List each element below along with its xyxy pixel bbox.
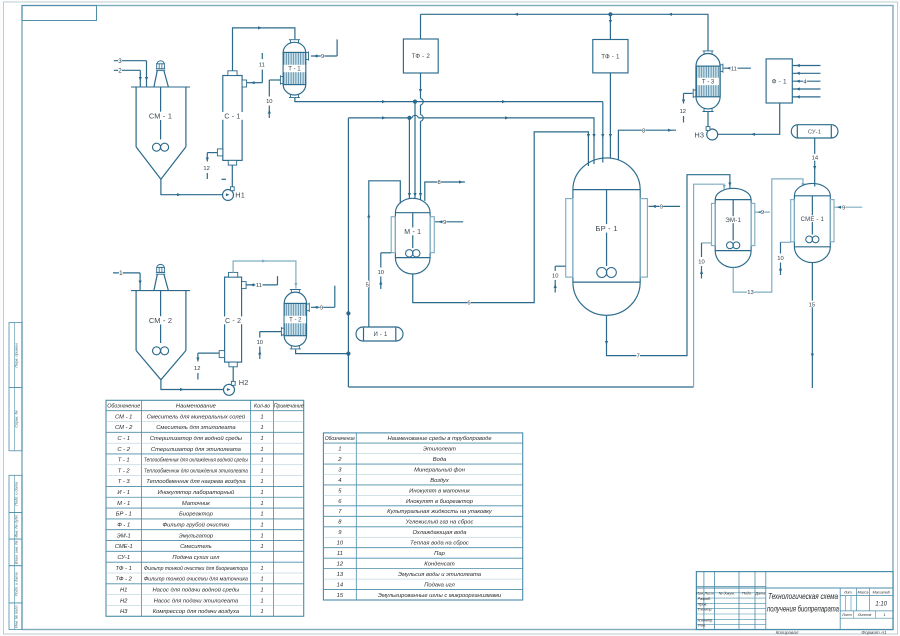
svg-text:ТФ - 1: ТФ - 1 <box>116 566 132 572</box>
svg-text:Теплообменник для охлаждения в: Теплообменник для охлаждения водной сред… <box>144 457 249 464</box>
ethyloleate branch line B to M-1 <box>408 118 410 202</box>
line A drop to BR-1 <box>602 102 604 137</box>
svg-text:М - 1: М - 1 <box>404 229 421 236</box>
pipe 10 warm water from BR-1 <box>552 266 566 292</box>
svg-text:9: 9 <box>321 54 324 60</box>
svg-text:СМ - 1: СМ - 1 <box>149 112 172 121</box>
pipe 1 into CM-2 <box>113 269 142 290</box>
svg-text:С - 2: С - 2 <box>225 318 241 325</box>
pipe CM-2 to pump H2 <box>161 380 224 391</box>
svg-text:С - 1: С - 1 <box>117 436 130 442</box>
ethyloleate line B horizontal <box>348 115 594 136</box>
svg-text:Теплообменник для нагрева возд: Теплообменник для нагрева воздуха <box>146 479 246 485</box>
pipe 10 warm water from EM-1 <box>698 243 711 279</box>
pump H1 <box>223 187 246 201</box>
pipe 9 cooling water into EM-1 <box>754 209 770 217</box>
svg-text:5: 5 <box>366 282 369 288</box>
hot air top line from T-3 to filters <box>421 12 709 51</box>
pipe 6 inoculum M-1 to BR-1 <box>413 132 589 307</box>
svg-text:Обозначение: Обозначение <box>107 404 141 410</box>
svg-text:1: 1 <box>260 577 263 583</box>
svg-text:С - 1: С - 1 <box>224 114 240 121</box>
pipe C-2 top to T-2 <box>233 259 297 288</box>
svg-text:И - 1: И - 1 <box>117 490 130 496</box>
svg-text:СМ - 2: СМ - 2 <box>115 425 133 431</box>
pipe 9 cooling water into M-1 <box>435 218 463 226</box>
svg-text:9: 9 <box>320 305 323 311</box>
left margin stamp group lower <box>9 475 22 629</box>
svg-text:М - 1: М - 1 <box>117 501 130 507</box>
svg-text:Воздух: Воздух <box>430 478 450 484</box>
pipe 12 condensate from T-3 <box>680 93 693 122</box>
pipe F-1 to H3 <box>718 103 780 136</box>
svg-text:Обозначение: Обозначение <box>325 436 355 442</box>
svg-text:Культуральная жидкость на упак: Культуральная жидкость на упаковку <box>387 509 493 515</box>
svg-text:Подп.: Подп. <box>742 591 752 595</box>
pipe 12 condensate from C-2 <box>194 353 219 379</box>
svg-text:Подп. и дата: Подп. и дата <box>15 572 19 596</box>
air pipe TF-2 to M-1 (hops lines A,B) <box>419 73 423 202</box>
svg-text:Наименование: Наименование <box>176 404 217 410</box>
pipe 14 needles SU-1 to CME-1 <box>811 138 819 187</box>
svg-text:Вода: Вода <box>433 457 447 463</box>
svg-text:8: 8 <box>642 128 645 134</box>
svg-text:Утв.: Утв. <box>698 624 706 628</box>
svg-text:Подп. и дата: Подп. и дата <box>15 482 19 506</box>
svg-text:СУ-1: СУ-1 <box>117 555 130 561</box>
svg-text:БР - 1: БР - 1 <box>116 512 132 518</box>
svg-text:Т - 1: Т - 1 <box>118 458 130 464</box>
pipe 13 emulsion EM-1 to CME-1 <box>733 179 804 296</box>
svg-text:9: 9 <box>842 205 845 211</box>
svg-text:Т - 2: Т - 2 <box>118 468 131 474</box>
svg-text:1: 1 <box>260 425 263 431</box>
svg-text:1: 1 <box>260 587 263 593</box>
svg-text:СМ - 1: СМ - 1 <box>115 414 132 420</box>
svg-text:10: 10 <box>777 256 783 262</box>
svg-text:15: 15 <box>809 302 815 308</box>
svg-text:1: 1 <box>260 501 263 507</box>
pipe 8 gas out of M-1 <box>425 178 465 200</box>
air intake lines 4 <box>792 64 820 99</box>
svg-text:1: 1 <box>260 414 263 420</box>
svg-text:Инв. № подл.: Инв. № подл. <box>15 604 19 628</box>
svg-text:Изм.: Изм. <box>696 591 704 595</box>
svg-text:Минеральный фон: Минеральный фон <box>414 466 466 473</box>
svg-text:9: 9 <box>660 204 663 210</box>
svg-text:11: 11 <box>256 283 262 289</box>
mixer CM-1 <box>131 61 190 179</box>
coarse air filter F-1 <box>766 59 792 103</box>
svg-text:Стерилизатор для этилолеата: Стерилизатор для этилолеата <box>151 447 242 453</box>
svg-text:Смеситель для минеральных соле: Смеситель для минеральных солей <box>147 413 246 420</box>
compressor H3 <box>694 127 717 140</box>
svg-text:Эмульгатор: Эмульгатор <box>179 533 214 539</box>
ethyloleate line B riser: T-2 bottom to line B and to bottom run <box>296 118 694 387</box>
svg-text:Пар: Пар <box>434 551 445 557</box>
svg-text:Фильтр грубой очистки: Фильтр грубой очистки <box>162 522 230 529</box>
svg-text:ЭМ-1: ЭМ-1 <box>117 533 131 539</box>
svg-text:1: 1 <box>260 523 263 529</box>
svg-text:10: 10 <box>552 274 558 280</box>
svg-text:3: 3 <box>118 58 122 65</box>
svg-text:9: 9 <box>443 220 446 226</box>
pipeline media table <box>323 433 522 600</box>
svg-text:Подача игл: Подача игл <box>424 582 455 588</box>
pipe 2 into CM-1 <box>114 66 142 86</box>
pipe 9 cooling water into BR-1 <box>649 203 681 211</box>
svg-text:Этилолеат: Этилолеат <box>423 446 456 452</box>
svg-text:СУ-1: СУ-1 <box>808 129 821 135</box>
mixer CM-2 <box>131 264 190 379</box>
svg-text:14: 14 <box>812 156 819 162</box>
mother-culture vessel M-1 <box>391 198 434 274</box>
pipe T-3 bottom to H3 <box>707 112 709 127</box>
pipe 9 cooling water into CME-1 <box>834 204 863 212</box>
svg-text:Кол-во: Кол-во <box>254 404 270 410</box>
pipe top line into TF-1 <box>609 14 612 39</box>
svg-text:1: 1 <box>260 512 263 518</box>
sterilizer C-2 <box>219 272 246 366</box>
svg-text:Н2: Н2 <box>239 378 249 387</box>
pipe 11 steam into T-3 <box>724 65 751 73</box>
ethyloleate bottom run riser to EM-1 <box>694 184 726 387</box>
svg-text:1: 1 <box>260 533 263 539</box>
svg-text:Лист: Лист <box>703 591 714 595</box>
svg-text:1: 1 <box>260 436 263 442</box>
fine filter TF-1 <box>593 40 628 73</box>
footer text Format A1 <box>861 630 887 635</box>
svg-text:6: 6 <box>467 301 470 307</box>
svg-text:10: 10 <box>698 260 704 266</box>
svg-text:4: 4 <box>338 478 341 484</box>
svg-text:Т - 3: Т - 3 <box>118 479 131 485</box>
mixer CME-1 <box>791 183 834 262</box>
svg-text:Наименование среды в трубопров: Наименование среды в трубопроводе <box>387 436 492 442</box>
pipe 11 steam into C-1 <box>247 53 265 84</box>
svg-text:Углекислый газ на сброс: Углекислый газ на сброс <box>405 519 474 526</box>
svg-text:Н3: Н3 <box>694 130 704 139</box>
svg-text:С - 2: С - 2 <box>117 447 130 453</box>
pipe 12 condensate from C-1 <box>203 153 217 179</box>
svg-text:10: 10 <box>378 270 384 276</box>
svg-text:И - 1: И - 1 <box>374 332 388 338</box>
svg-text:12: 12 <box>680 109 686 115</box>
svg-text:СМЕ - 1: СМЕ - 1 <box>801 217 825 223</box>
pipe 10 warm water from CME-1 <box>777 242 790 275</box>
svg-text:Н1: Н1 <box>120 587 127 593</box>
svg-text:Н3: Н3 <box>120 609 128 615</box>
svg-text:1: 1 <box>260 566 263 572</box>
pipe C-1 top to T-1 <box>233 26 295 71</box>
svg-text:Лист: Лист <box>841 613 852 617</box>
top-left corner stamp box <box>22 6 97 21</box>
svg-text:Т - 1: Т - 1 <box>288 67 301 73</box>
incubator I-1 <box>356 327 403 341</box>
pipe 11 steam into C-2 <box>247 276 278 289</box>
svg-text:9: 9 <box>761 210 764 216</box>
svg-text:1: 1 <box>260 479 263 485</box>
heat exchanger T-3 <box>693 51 723 112</box>
pipe 10 warm water from T-1 <box>266 80 280 118</box>
water branch line A to M-1 <box>414 102 416 202</box>
svg-text:10: 10 <box>266 99 272 105</box>
pipe 9 cooling water into T-1 <box>311 39 337 60</box>
svg-text:Т.контр.: Т.контр. <box>698 608 713 612</box>
svg-text:ТФ - 1: ТФ - 1 <box>601 54 620 61</box>
left margin stamp: Sprav. No <box>9 387 22 450</box>
svg-text:Инв. № дубл.: Инв. № дубл. <box>15 514 19 537</box>
svg-text:13: 13 <box>747 290 753 296</box>
svg-text:Справ. №: Справ. № <box>15 410 19 427</box>
svg-text:Биореактор: Биореактор <box>179 512 214 518</box>
svg-text:Конденсат: Конденсат <box>424 562 455 568</box>
pipe 8 gas out of BR-1 <box>618 127 676 161</box>
fine filter TF-2 <box>403 39 438 73</box>
svg-text:БР - 1: БР - 1 <box>595 224 617 233</box>
pipe C-2 bottom to pump H2 <box>232 367 234 382</box>
footer text Kopiroval <box>776 630 799 635</box>
svg-text:Н.контр.: Н.контр. <box>698 618 714 622</box>
emulsifier EM-1 <box>712 188 755 267</box>
svg-text:Смеситель для этилолеата: Смеситель для этилолеата <box>156 425 236 431</box>
pipe 10 warm water from T-2 <box>257 332 282 359</box>
water line A from T-1 bottom <box>295 98 603 104</box>
title block <box>696 572 893 630</box>
svg-text:10: 10 <box>337 541 344 547</box>
svg-text:1: 1 <box>883 613 885 617</box>
dry needles feeder SU-1 <box>791 125 838 138</box>
svg-text:Взам. инв. №: Взам. инв. № <box>15 541 19 564</box>
svg-text:Т - 3: Т - 3 <box>702 80 715 86</box>
svg-text:15: 15 <box>337 593 344 599</box>
svg-text:Технологическая схема: Технологическая схема <box>768 592 838 601</box>
svg-text:Ф - 1: Ф - 1 <box>117 523 130 529</box>
svg-text:Смеситель: Смеситель <box>180 544 212 550</box>
pipe C-1 bottom to pump H1 <box>231 165 233 187</box>
svg-text:№ докум.: № докум. <box>719 591 735 595</box>
svg-text:14: 14 <box>337 582 343 588</box>
svg-text:Формат А1: Формат А1 <box>861 630 887 635</box>
svg-text:Лит.: Лит. <box>843 590 853 594</box>
svg-text:1: 1 <box>119 270 123 277</box>
arrows into BR-1 top <box>587 134 612 166</box>
left margin stamp: Perv. primen. <box>9 323 22 388</box>
svg-text:13: 13 <box>337 572 344 578</box>
svg-text:Листов: Листов <box>857 613 872 617</box>
svg-text:1: 1 <box>260 598 263 604</box>
svg-text:1: 1 <box>260 490 263 496</box>
svg-text:1: 1 <box>260 544 263 550</box>
svg-text:Примечание: Примечание <box>274 404 304 410</box>
svg-text:Теплая вода на сброс: Теплая вода на сброс <box>410 541 469 547</box>
pipe 10 warm water from M-1 <box>378 253 392 289</box>
svg-text:Эмульсия воды и этилолеата: Эмульсия воды и этилолеата <box>398 572 482 578</box>
svg-text:Пров.: Пров. <box>698 602 708 606</box>
svg-text:Насос для подачи этилолеата: Насос для подачи этилолеата <box>154 598 239 604</box>
svg-text:1: 1 <box>260 468 263 474</box>
svg-text:Ф - 1: Ф - 1 <box>772 78 787 85</box>
sterilizer C-1 <box>217 71 246 165</box>
svg-text:8: 8 <box>437 180 440 186</box>
arrows into M-1 top <box>408 193 417 197</box>
pump H2 <box>224 378 249 395</box>
svg-text:12: 12 <box>194 366 200 372</box>
svg-text:2: 2 <box>118 68 122 75</box>
pipe 3 into CM-1 <box>114 57 148 87</box>
svg-text:СМ - 2: СМ - 2 <box>149 316 172 325</box>
svg-text:7: 7 <box>637 354 640 360</box>
svg-text:получения биопрепарата: получения биопрепарата <box>767 605 839 614</box>
svg-text:12: 12 <box>203 166 209 172</box>
svg-text:Масса: Масса <box>858 590 869 594</box>
svg-text:Маточник: Маточник <box>182 501 210 507</box>
pipe CM-1 to pump H1 <box>161 179 223 196</box>
svg-text:ТФ - 2: ТФ - 2 <box>412 53 431 60</box>
svg-text:Инокулятор лабораторный: Инокулятор лабораторный <box>158 489 235 496</box>
equipment list table <box>106 400 304 616</box>
svg-text:Н2: Н2 <box>120 598 128 604</box>
air pipe TF-1 to BR-1 <box>609 73 611 162</box>
svg-text:11: 11 <box>337 551 343 557</box>
pipe top line into TF-2 <box>420 14 422 39</box>
svg-text:11: 11 <box>259 63 265 69</box>
svg-text:Инокулят в маточник: Инокулят в маточник <box>409 488 470 494</box>
pipe 9 cooling water into T-2 <box>311 286 335 312</box>
svg-text:СМЕ-1: СМЕ-1 <box>115 544 133 550</box>
heat exchanger T-1 <box>280 40 308 98</box>
svg-text:Фильтр тонкой очистки для мато: Фильтр тонкой очистки для маточника <box>144 576 249 583</box>
svg-text:Н1: Н1 <box>235 190 245 199</box>
svg-text:1: 1 <box>260 458 263 464</box>
svg-text:Инокулят в биореактор: Инокулят в биореактор <box>406 499 474 505</box>
svg-text:1: 1 <box>338 446 341 452</box>
pipe 15 product out of CME-1 <box>808 263 815 388</box>
svg-text:ТФ - 2: ТФ - 2 <box>116 577 133 583</box>
svg-text:Теплообменник для охлаждения э: Теплообменник для охлаждения этилолеата <box>144 468 249 474</box>
bioreactor BR-1 <box>566 158 648 315</box>
svg-text:Компрессор для подачи воздуха: Компрессор для подачи воздуха <box>153 609 240 615</box>
svg-text:1:10: 1:10 <box>875 602 887 608</box>
dash mark near H1 <box>222 178 227 180</box>
svg-text:Разраб.: Разраб. <box>698 597 711 601</box>
pipe 7 culture liquid BR-1 to EM-1 <box>605 175 732 360</box>
svg-text:Перв. примен.: Перв. примен. <box>15 342 19 367</box>
svg-text:Фильтр тонкой очистки для биор: Фильтр тонкой очистки для биореактора <box>144 565 249 572</box>
svg-text:11: 11 <box>731 66 737 72</box>
svg-text:12: 12 <box>337 562 344 568</box>
svg-text:Стерилизатор для водной среды: Стерилизатор для водной среды <box>150 435 243 442</box>
svg-text:Дата: Дата <box>755 591 766 595</box>
svg-text:ЭМ-1: ЭМ-1 <box>725 217 741 224</box>
svg-text:1: 1 <box>260 609 263 615</box>
heat exchanger T-2 <box>281 290 309 349</box>
svg-text:Эмульгированные иглы с микроор: Эмульгированные иглы с микроорганизмами <box>378 593 502 599</box>
pipe 5 inoculum I-1 to M-1 <box>365 181 400 327</box>
svg-text:Охлаждающая вода: Охлаждающая вода <box>412 530 467 536</box>
svg-text:Масштаб: Масштаб <box>873 590 891 594</box>
svg-text:1: 1 <box>260 447 263 453</box>
svg-text:Насос для подачи водной среды: Насос для подачи водной среды <box>152 586 240 593</box>
svg-text:Т - 2: Т - 2 <box>289 318 302 324</box>
svg-text:10: 10 <box>257 340 263 346</box>
svg-text:Копировал: Копировал <box>776 630 799 635</box>
svg-text:Подача сухих игл: Подача сухих игл <box>172 555 220 561</box>
